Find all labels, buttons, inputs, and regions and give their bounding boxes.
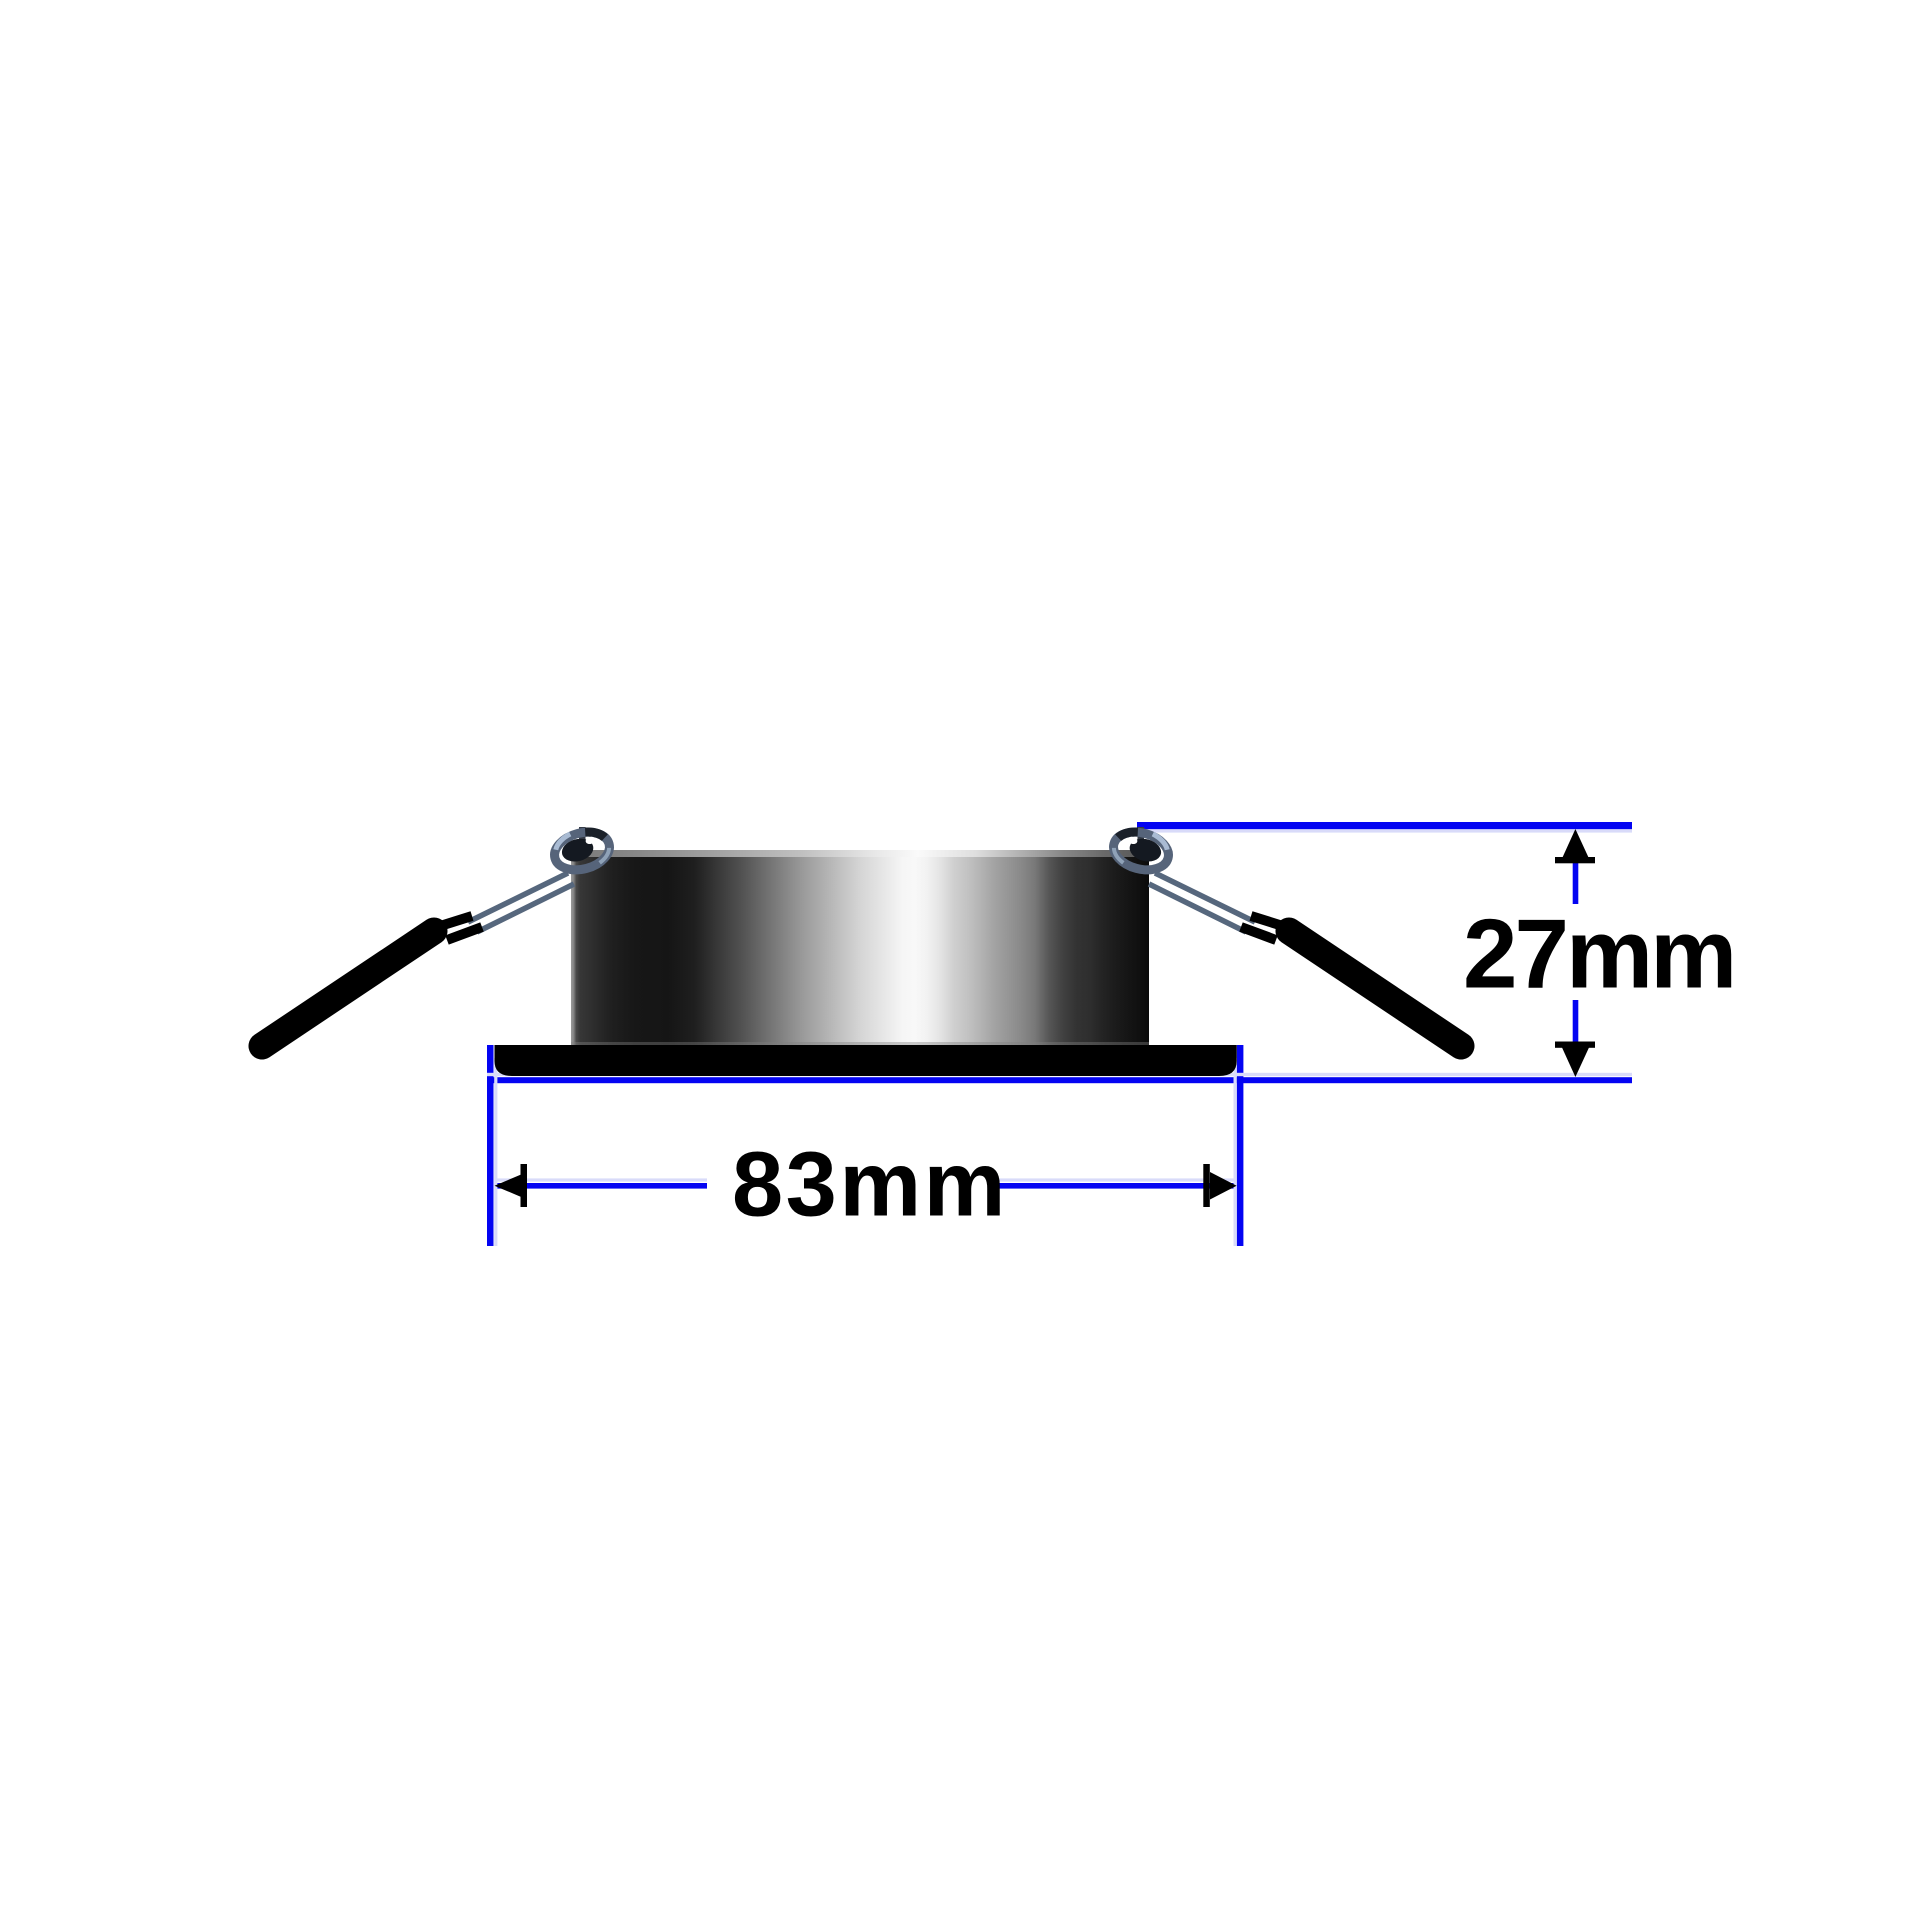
svg-text:83mm: 83mm: [732, 1134, 1008, 1236]
hairline companion above 83mm line left: [496, 1178, 707, 1181]
svg-text:27mm: 27mm: [1463, 899, 1734, 1009]
dimension line 27mm bottom reference: [487, 1077, 1632, 1083]
clip torsion loop: [550, 825, 614, 876]
dimension line 27mm upper segment: [1573, 860, 1579, 904]
clip handle: [262, 931, 434, 1046]
spring clip right (mirror): [1109, 825, 1461, 1046]
hairline companion right of left extension line: [494, 1058, 497, 1246]
extension line right (83mm): [1237, 1045, 1244, 1246]
clip prong upper: [437, 916, 472, 927]
spring clip left: [262, 825, 614, 1046]
body top rim highlight: [571, 850, 1149, 857]
body/flange junction shading: [571, 1042, 1149, 1045]
hairline companion left of right extension line: [1234, 1058, 1237, 1246]
downlight body (cylinder side view): [571, 850, 1149, 1045]
clip pivot pin: [579, 827, 586, 852]
arrowhead 27mm up: [1555, 829, 1595, 863]
clip wire upper: [468, 873, 568, 922]
dimension line 27mm top reference: [1137, 822, 1632, 829]
clip wire lower: [477, 884, 574, 932]
arrowhead 83mm left: [495, 1164, 528, 1207]
dimension line 83mm right segment: [993, 1183, 1234, 1189]
extension line left (83mm): [487, 1045, 494, 1246]
dimension line 27mm lower segment: [1573, 1000, 1579, 1046]
hairline companion above 83mm line right: [993, 1178, 1234, 1181]
clip prong lower: [447, 927, 482, 940]
arrowhead 83mm right: [1203, 1164, 1236, 1207]
arrowhead 27mm down: [1555, 1042, 1595, 1078]
dimension line 83mm left segment: [496, 1183, 707, 1189]
hairline companion above bottom 27mm line: [487, 1073, 1632, 1076]
hairline companion below top 27mm line: [1140, 830, 1632, 833]
trim ring flange: [495, 1045, 1237, 1076]
